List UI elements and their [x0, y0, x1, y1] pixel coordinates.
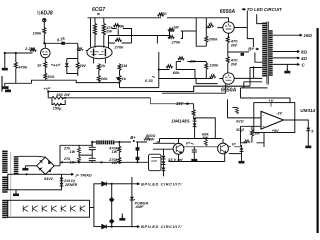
op-amp triangle	[261, 111, 284, 129]
27k 1W bleeders	[60, 142, 92, 147]
svg-text:+: +	[262, 125, 265, 130]
bridge bottom to rail	[44, 173, 46, 175]
zeners right of box	[60, 178, 64, 181]
svg-text:470k: 470k	[17, 64, 28, 69]
svg-text:510: 510	[48, 74, 55, 79]
arrow TO LED CIRCUIT	[242, 8, 246, 10]
svg-text:270k: 270k	[114, 44, 125, 49]
wire sec lower taps left	[241, 82, 268, 88]
svg-text:10k: 10k	[101, 76, 108, 81]
svg-text:+Vᵈ: +Vᵈ	[44, 86, 51, 91]
svg-text:2W: 2W	[105, 28, 113, 33]
ground on C tap	[286, 64, 288, 70]
input terminal	[4, 52, 6, 54]
tube V1 triode	[41, 48, 51, 58]
plate to rail	[228, 18, 230, 22]
svg-text:150µ: 150µ	[53, 106, 63, 111]
resistor plate A	[93, 23, 96, 35]
tube V4 6550A	[223, 73, 234, 84]
B+ rail top	[88, 17, 230, 19]
emitter bus	[169, 161, 225, 163]
wire plate resistor drops	[95, 18, 104, 48]
svg-text:(= TRIAD: (= TRIAD	[76, 173, 92, 177]
+Va sense wire	[241, 142, 247, 144]
input wires	[228, 118, 262, 126]
resistor 200k	[205, 18, 207, 36]
ground input	[2, 66, 8, 71]
base wires from left	[153, 143, 175, 149]
wire Vb bus	[48, 86, 250, 91]
bleeder 470k	[118, 142, 120, 146]
svg-text:1M: 1M	[173, 24, 179, 29]
svg-text:2W: 2W	[230, 42, 238, 47]
Vb lower rail wire	[63, 97, 151, 99]
resistor grid stopper 2.2M	[30, 48, 36, 51]
long vertical coupling line	[158, 52, 160, 88]
svg-text:+9V: +9V	[272, 129, 279, 133]
wire to 150 resistor	[48, 92, 52, 98]
svg-text:4Ω: 4Ω	[300, 56, 307, 61]
svg-text:150 1W: 150 1W	[56, 92, 71, 97]
long vertical from plate wire	[77, 43, 79, 76]
link to bias bridge	[90, 207, 94, 209]
ground inside bridge	[121, 214, 123, 219]
wire cap return box	[120, 87, 159, 89]
box 5AR4	[8, 174, 62, 190]
ground mid bus	[5, 88, 11, 93]
svg-text:6VΩ: 6VΩ	[236, 120, 243, 124]
svg-text:UM314: UM314	[300, 108, 315, 113]
svg-text:470: 470	[159, 11, 167, 16]
svg-text:2W: 2W	[230, 61, 238, 66]
node grid junction	[15, 52, 17, 54]
center leg	[111, 184, 113, 227]
svg-text:100k: 100k	[33, 30, 43, 35]
transistor Q1	[173, 143, 184, 154]
bypass cap 150u parallel	[52, 98, 65, 105]
svg-text:B+: B+	[130, 135, 136, 140]
diode sense	[229, 153, 242, 155]
B+ rail psu	[92, 141, 147, 143]
PT primary winding	[2, 151, 7, 219]
wire to 470k	[15, 53, 17, 62]
cathode lower wire	[162, 84, 226, 94]
core line PT	[10, 152, 12, 216]
vertical cap column	[137, 142, 139, 162]
svg-text:1W: 1W	[111, 161, 117, 165]
tap C common	[273, 63, 300, 65]
diode bootstrap	[65, 63, 69, 66]
zener right edge	[130, 197, 134, 200]
svg-text:-2V: -2V	[276, 112, 282, 116]
svg-text:6550A: 6550A	[221, 87, 237, 93]
bridge box	[94, 184, 132, 227]
wire sec top to left	[250, 68, 262, 87]
svg-text:6CG7: 6CG7	[92, 7, 105, 13]
tap 4 ohm	[273, 57, 300, 59]
capacitor 0.15 coupling	[61, 42, 65, 45]
tube V2 envelope twin triode	[87, 46, 112, 59]
svg-text:BPILED CIRCUIT⁄: BPILED CIRCUIT⁄	[141, 224, 183, 229]
svg-text:B+: B+	[248, 46, 254, 51]
primary winding	[262, 23, 266, 77]
bridge right to 27k	[54, 145, 60, 166]
bridge left ground	[25, 165, 36, 167]
svg-text:TO LED CIRCUIT: TO LED CIRCUIT	[247, 7, 282, 12]
right mid knot	[227, 99, 229, 118]
svg-text:Vᵈ: Vᵈ	[186, 141, 191, 146]
secondary winding	[269, 30, 273, 76]
output arrow -	[132, 226, 140, 228]
svg-text:1M: 1M	[254, 131, 260, 136]
svg-text:6550A: 6550A	[220, 9, 236, 15]
svg-text:Vᵃ: Vᵃ	[232, 141, 237, 146]
node plate junction	[43, 42, 45, 44]
svg-text:2W: 2W	[79, 63, 87, 68]
grid wire lower tube	[159, 78, 223, 80]
output arrow +	[132, 177, 140, 185]
base link wire	[184, 146, 218, 148]
resistor 470 on rail	[158, 13, 164, 16]
choke winding	[96, 140, 114, 144]
plate to transformer bottom	[234, 77, 262, 79]
diode bottom edge	[102, 225, 107, 229]
svg-text:33 V ref: 33 V ref	[168, 157, 183, 162]
resistor plate B 47k 2W	[102, 23, 105, 35]
cathode resistor 470 2W	[227, 33, 230, 36]
wire rail drop left	[90, 18, 92, 48]
resistor 100k	[205, 62, 207, 64]
svg-text:ZENER: ZENER	[64, 183, 78, 187]
tube pins	[94, 59, 106, 64]
svg-text:200k: 200k	[208, 36, 219, 41]
cap diamonds center	[110, 198, 114, 202]
wire cathode	[44, 58, 46, 62]
svg-text:BPILED CIRCUIT⁄: BPILED CIRCUIT⁄	[141, 181, 183, 186]
wire fb down to comparator	[240, 88, 242, 98]
bias top wire	[160, 138, 222, 140]
bridge rectifier diamond	[37, 157, 55, 174]
wire 150 to right	[62, 97, 151, 99]
resistor 270k feedback	[115, 38, 121, 41]
svg-text:16Ω: 16Ω	[304, 33, 313, 38]
resistor 1M input	[251, 126, 253, 130]
LED stem	[247, 11, 253, 48]
tube V3 6550A	[223, 22, 234, 33]
svg-text:0.33: 0.33	[145, 78, 154, 83]
wire input shunt down	[4, 53, 6, 66]
ground op-amp out	[305, 144, 311, 149]
wire top bias knot	[195, 118, 216, 139]
filter caps	[79, 142, 96, 162]
wire ground bus left	[7, 82, 31, 84]
resistor 470k grid leak	[14, 62, 17, 68]
svg-text:1k: 1k	[37, 62, 42, 67]
fb wire into box	[241, 98, 291, 103]
transistor Q2	[218, 143, 229, 154]
core lines	[267, 22, 268, 85]
plate side to transformer	[234, 27, 247, 29]
resistor 39k to fb node	[113, 24, 119, 27]
resistor 1M right leg	[119, 62, 121, 65]
svg-text:½6DJ8: ½6DJ8	[37, 10, 53, 17]
resistor 68k lower fb	[159, 62, 177, 70]
resistor 510	[44, 73, 47, 79]
cathode bus	[228, 51, 249, 53]
collector rail	[60, 161, 149, 163]
zener string box	[8, 200, 90, 217]
resistor 10k lower	[97, 75, 100, 81]
diode top edge	[102, 182, 107, 186]
cap bias filter	[193, 147, 195, 150]
zener diodes row	[23, 206, 85, 212]
node +Vb junction	[47, 90, 49, 92]
svg-text:1W: 1W	[111, 150, 117, 154]
resistor bias drop	[193, 104, 195, 110]
svg-text:54V2: 54V2	[44, 177, 54, 181]
svg-text:1N4148S: 1N4148S	[171, 119, 189, 124]
svg-text:AMP: AMP	[134, 205, 144, 209]
wire fb node across	[109, 29, 170, 36]
bridge top wire	[18, 155, 45, 158]
svg-text:39k: 39k	[118, 23, 125, 28]
B+ to primary CT	[254, 53, 263, 79]
wire bus step	[32, 80, 120, 83]
connector box	[149, 154, 162, 171]
svg-text:1M: 1M	[122, 63, 128, 68]
resistor 1k cathode	[44, 62, 47, 68]
svg-text:8Ω: 8Ω	[301, 50, 307, 55]
PT secondary winding HV	[14, 156, 19, 174]
ground below box	[15, 190, 17, 193]
tap 16 ohm	[273, 34, 302, 36]
svg-text:270k: 270k	[171, 40, 182, 45]
grid box	[196, 18, 206, 46]
ground small	[239, 159, 245, 164]
wire Va from Q2	[234, 143, 241, 147]
resistor cathode 1k	[98, 62, 100, 65]
svg-text:1k: 1k	[101, 63, 106, 68]
resistor 1k right lower	[118, 75, 121, 81]
ground bus left end	[2, 84, 8, 89]
screen network 1M	[176, 61, 181, 63]
svg-text:2.2M: 2.2M	[24, 46, 35, 51]
resistor 2W in box	[76, 62, 79, 68]
wire input to grid	[5, 52, 41, 54]
diode at Va	[240, 148, 244, 151]
box	[254, 103, 295, 133]
svg-text:1W: 1W	[70, 150, 76, 154]
svg-text:100k: 100k	[210, 63, 220, 68]
resistor 470 2W lower	[227, 52, 229, 57]
wire plate to coupling cap	[44, 42, 78, 44]
resistor 100k (V1 plate load)	[43, 28, 46, 34]
bleeder 270k	[118, 157, 121, 163]
grid entry left	[78, 50, 87, 52]
svg-text:+V: +V	[269, 99, 274, 103]
resistor 270k fb lower	[168, 35, 174, 38]
svg-text:+Vᵈ: +Vᵈ	[54, 63, 61, 68]
tap 8 ohm	[273, 51, 300, 53]
+Va arrow	[228, 145, 230, 148]
TRIAD note arrow	[62, 173, 74, 175]
resistor 150 1W	[52, 97, 64, 100]
grid stopper 1k	[206, 27, 223, 29]
resistor 1M fb	[168, 28, 174, 31]
svg-text:1k: 1k	[122, 76, 127, 81]
transformer primary top tap	[257, 14, 263, 23]
left stray edge line	[1, 76, 3, 92]
bootstrap box	[67, 59, 78, 74]
B+ arrow feed V1 plate	[43, 22, 45, 28]
svg-text:68k: 68k	[173, 70, 180, 75]
